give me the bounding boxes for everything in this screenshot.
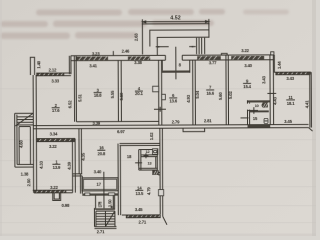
svg-text:6.97: 6.97 (117, 129, 125, 134)
wc box room 12 (153, 149, 158, 155)
svg-text:20.8: 20.8 (98, 151, 106, 156)
stair treads (17, 117, 33, 125)
stair inner well (19, 127, 30, 165)
room 8 vestibule box (162, 60, 190, 70)
small room below 17 (96, 195, 115, 210)
stair treads bottom (96, 214, 115, 224)
faint horizontal scanner streaks (0, 88, 316, 223)
svg-text:4.33: 4.33 (39, 160, 44, 168)
wall room16/18 vertical (118, 144, 121, 216)
block 12/13 bottom wall (139, 168, 158, 170)
window W4 room9 (231, 56, 264, 60)
room 11 right wall (310, 72, 312, 128)
svg-text:4.52: 4.52 (170, 15, 181, 21)
corner tick bottom right (309, 128, 313, 131)
stair bottom wall (94, 227, 116, 229)
room 11 top window band (275, 72, 310, 75)
section line through entrance (175, 47, 177, 80)
svg-text:3.22: 3.22 (49, 144, 57, 149)
small stub above wall at 9/11 junction (271, 52, 274, 55)
wall top of room18 (120, 143, 160, 145)
loggia right wall / step (69, 56, 71, 74)
porch bump room1 (53, 193, 61, 201)
small arrow below 1.50 (111, 206, 113, 208)
loggia rail window band (36, 73, 64, 76)
door cross mark on wall4/6 (154, 107, 166, 112)
door box on right wall (159, 190, 164, 196)
canopy line 3 (157, 37, 209, 55)
wall room6/7 (193, 60, 196, 125)
window W2 room4 (128, 56, 150, 60)
svg-text:6.52: 6.52 (68, 100, 73, 108)
svg-text:4.79: 4.79 (146, 187, 151, 195)
entrance door jambs (165, 55, 182, 60)
notch below 13 (dark box) (153, 170, 158, 175)
corner diagonal tail (163, 216, 167, 224)
svg-text:3.22: 3.22 (241, 48, 249, 53)
room 10 circle icon (262, 103, 266, 107)
svg-text:3.33: 3.33 (51, 78, 59, 83)
svg-text:17.6: 17.6 (52, 108, 60, 113)
svg-text:2.46: 2.46 (122, 48, 130, 53)
svg-text:3.39: 3.39 (92, 121, 100, 126)
canopy line 2 (150, 30, 209, 47)
stair rails right of entrance (197, 38, 205, 54)
door tick on wall9/11 (267, 92, 276, 94)
svg-text:4.60: 4.60 (19, 139, 24, 147)
window W1 room3 (76, 57, 108, 61)
svg-text:1.40: 1.40 (36, 60, 41, 68)
stair diagonal (15, 113, 33, 125)
entrance canopy outline (142, 24, 209, 55)
dark duct box (263, 102, 268, 107)
svg-text:13.5: 13.5 (135, 191, 143, 196)
svg-text:16.6: 16.6 (206, 91, 214, 96)
small room bottom dark wall (96, 208, 115, 210)
door box left on wall under 17 (85, 193, 90, 196)
svg-text:0.98: 0.98 (62, 203, 70, 208)
wc icon room15 (264, 118, 268, 123)
svg-text:15.4: 15.4 (243, 84, 251, 89)
room13 right wall (156, 150, 158, 171)
stair cut diagonal (106, 212, 115, 226)
svg-text:3.38: 3.38 (134, 60, 142, 65)
svg-text:3.77: 3.77 (209, 60, 217, 65)
notch lines to right wall (153, 170, 160, 175)
svg-text:4.93: 4.93 (186, 94, 191, 102)
svg-text:2.63: 2.63 (133, 33, 138, 41)
parapet jog at wall7/9 (221, 53, 227, 55)
svg-text:1.44: 1.44 (277, 61, 282, 69)
svg-text:3.34: 3.34 (50, 131, 58, 136)
svg-text:2.71: 2.71 (97, 229, 105, 234)
svg-text:3.45: 3.45 (284, 119, 292, 124)
tick in corridor (241, 117, 249, 119)
svg-text:4.39: 4.39 (67, 161, 72, 169)
svg-text:2.79: 2.79 (172, 119, 180, 124)
svg-text:4.41: 4.41 (304, 100, 309, 108)
svg-text:1.38: 1.38 (21, 172, 29, 177)
top wall outer line (71, 54, 274, 57)
wall room3/4 (118, 60, 121, 121)
svg-text:13.6: 13.6 (169, 99, 177, 104)
svg-text:1.50: 1.50 (108, 199, 113, 207)
svg-text:5.55: 5.55 (110, 90, 115, 98)
room14 bottom window band (126, 215, 161, 218)
block 10/15 top wall (247, 100, 270, 102)
dark icon in small room (98, 202, 101, 207)
cross mark on wall 12/13 (143, 153, 148, 158)
rear porch bump (183, 128, 205, 131)
svg-text:3.40: 3.40 (244, 63, 252, 68)
room1 bottom window band (34, 190, 66, 193)
svg-text:13.9: 13.9 (53, 165, 61, 170)
arrow marks at canopy (156, 46, 196, 48)
svg-text:2.12: 2.12 (49, 68, 57, 73)
room1 top window band (36, 138, 75, 141)
svg-text:18.1: 18.1 (287, 101, 295, 106)
window W3 room7 (197, 56, 221, 60)
svg-text:2.50: 2.50 (26, 178, 31, 186)
svg-text:20.1: 20.1 (135, 91, 143, 96)
bleed-through text from reverse side (faint pink rows, top-left) (0, 9, 289, 39)
svg-text:5.04: 5.04 (195, 90, 200, 98)
wall between 10 and 15 (250, 110, 269, 112)
room3 inner bottom wall line (77, 120, 159, 122)
wing right exterior wall (160, 128, 163, 216)
svg-text:2.81: 2.81 (204, 118, 212, 123)
dim line 4.52 (142, 19, 209, 24)
svg-text:3.43: 3.43 (286, 76, 294, 81)
svg-text:5.02: 5.02 (228, 91, 233, 99)
wall room7/9 (226, 55, 229, 125)
room1 right wall (72, 138, 75, 192)
svg-text:3.40: 3.40 (94, 169, 102, 174)
svg-text:3.45: 3.45 (135, 207, 143, 212)
section line through room 17 (103, 172, 105, 208)
svg-text:1.02: 1.02 (149, 132, 154, 140)
block 10/15 left wall (247, 100, 249, 124)
svg-text:5.51: 5.51 (77, 94, 82, 102)
wall 12/13 (141, 155, 158, 157)
dark bottom wall under block 10/15 (248, 125, 271, 128)
loggia left pillar (30, 57, 34, 75)
svg-text:10: 10 (255, 103, 259, 108)
block 12/13 top line (139, 149, 158, 151)
svg-text:2.71: 2.71 (138, 219, 146, 224)
door box right on wall under 17 (109, 193, 115, 196)
cross mark room15 (247, 107, 258, 114)
svg-text:4.35: 4.35 (81, 152, 86, 160)
room 16 left wall (79, 129, 82, 174)
dim tick on top wall (112, 51, 114, 56)
svg-text:3.23: 3.23 (92, 51, 100, 56)
svg-text:4.43: 4.43 (273, 96, 278, 104)
door box right of wall4/6 (162, 94, 166, 100)
page edge shading (312, 0, 316, 236)
svg-text:3.22: 3.22 (50, 185, 58, 190)
svg-text:3.41: 3.41 (89, 63, 97, 68)
wall under room 17 (82, 194, 118, 195)
wall below room16 (73, 174, 83, 194)
top wall inner line (71, 59, 274, 62)
cross mark room13 left (135, 160, 142, 166)
svg-text:5.60: 5.60 (218, 92, 223, 100)
svg-text:3.43: 3.43 (261, 75, 266, 83)
door box left of wall4/6 (153, 86, 159, 92)
svg-text:18.8: 18.8 (94, 93, 102, 98)
svg-text:5.60: 5.60 (119, 92, 124, 100)
step wall at main block right end (273, 55, 275, 72)
block 12/13 left wall (139, 150, 141, 171)
